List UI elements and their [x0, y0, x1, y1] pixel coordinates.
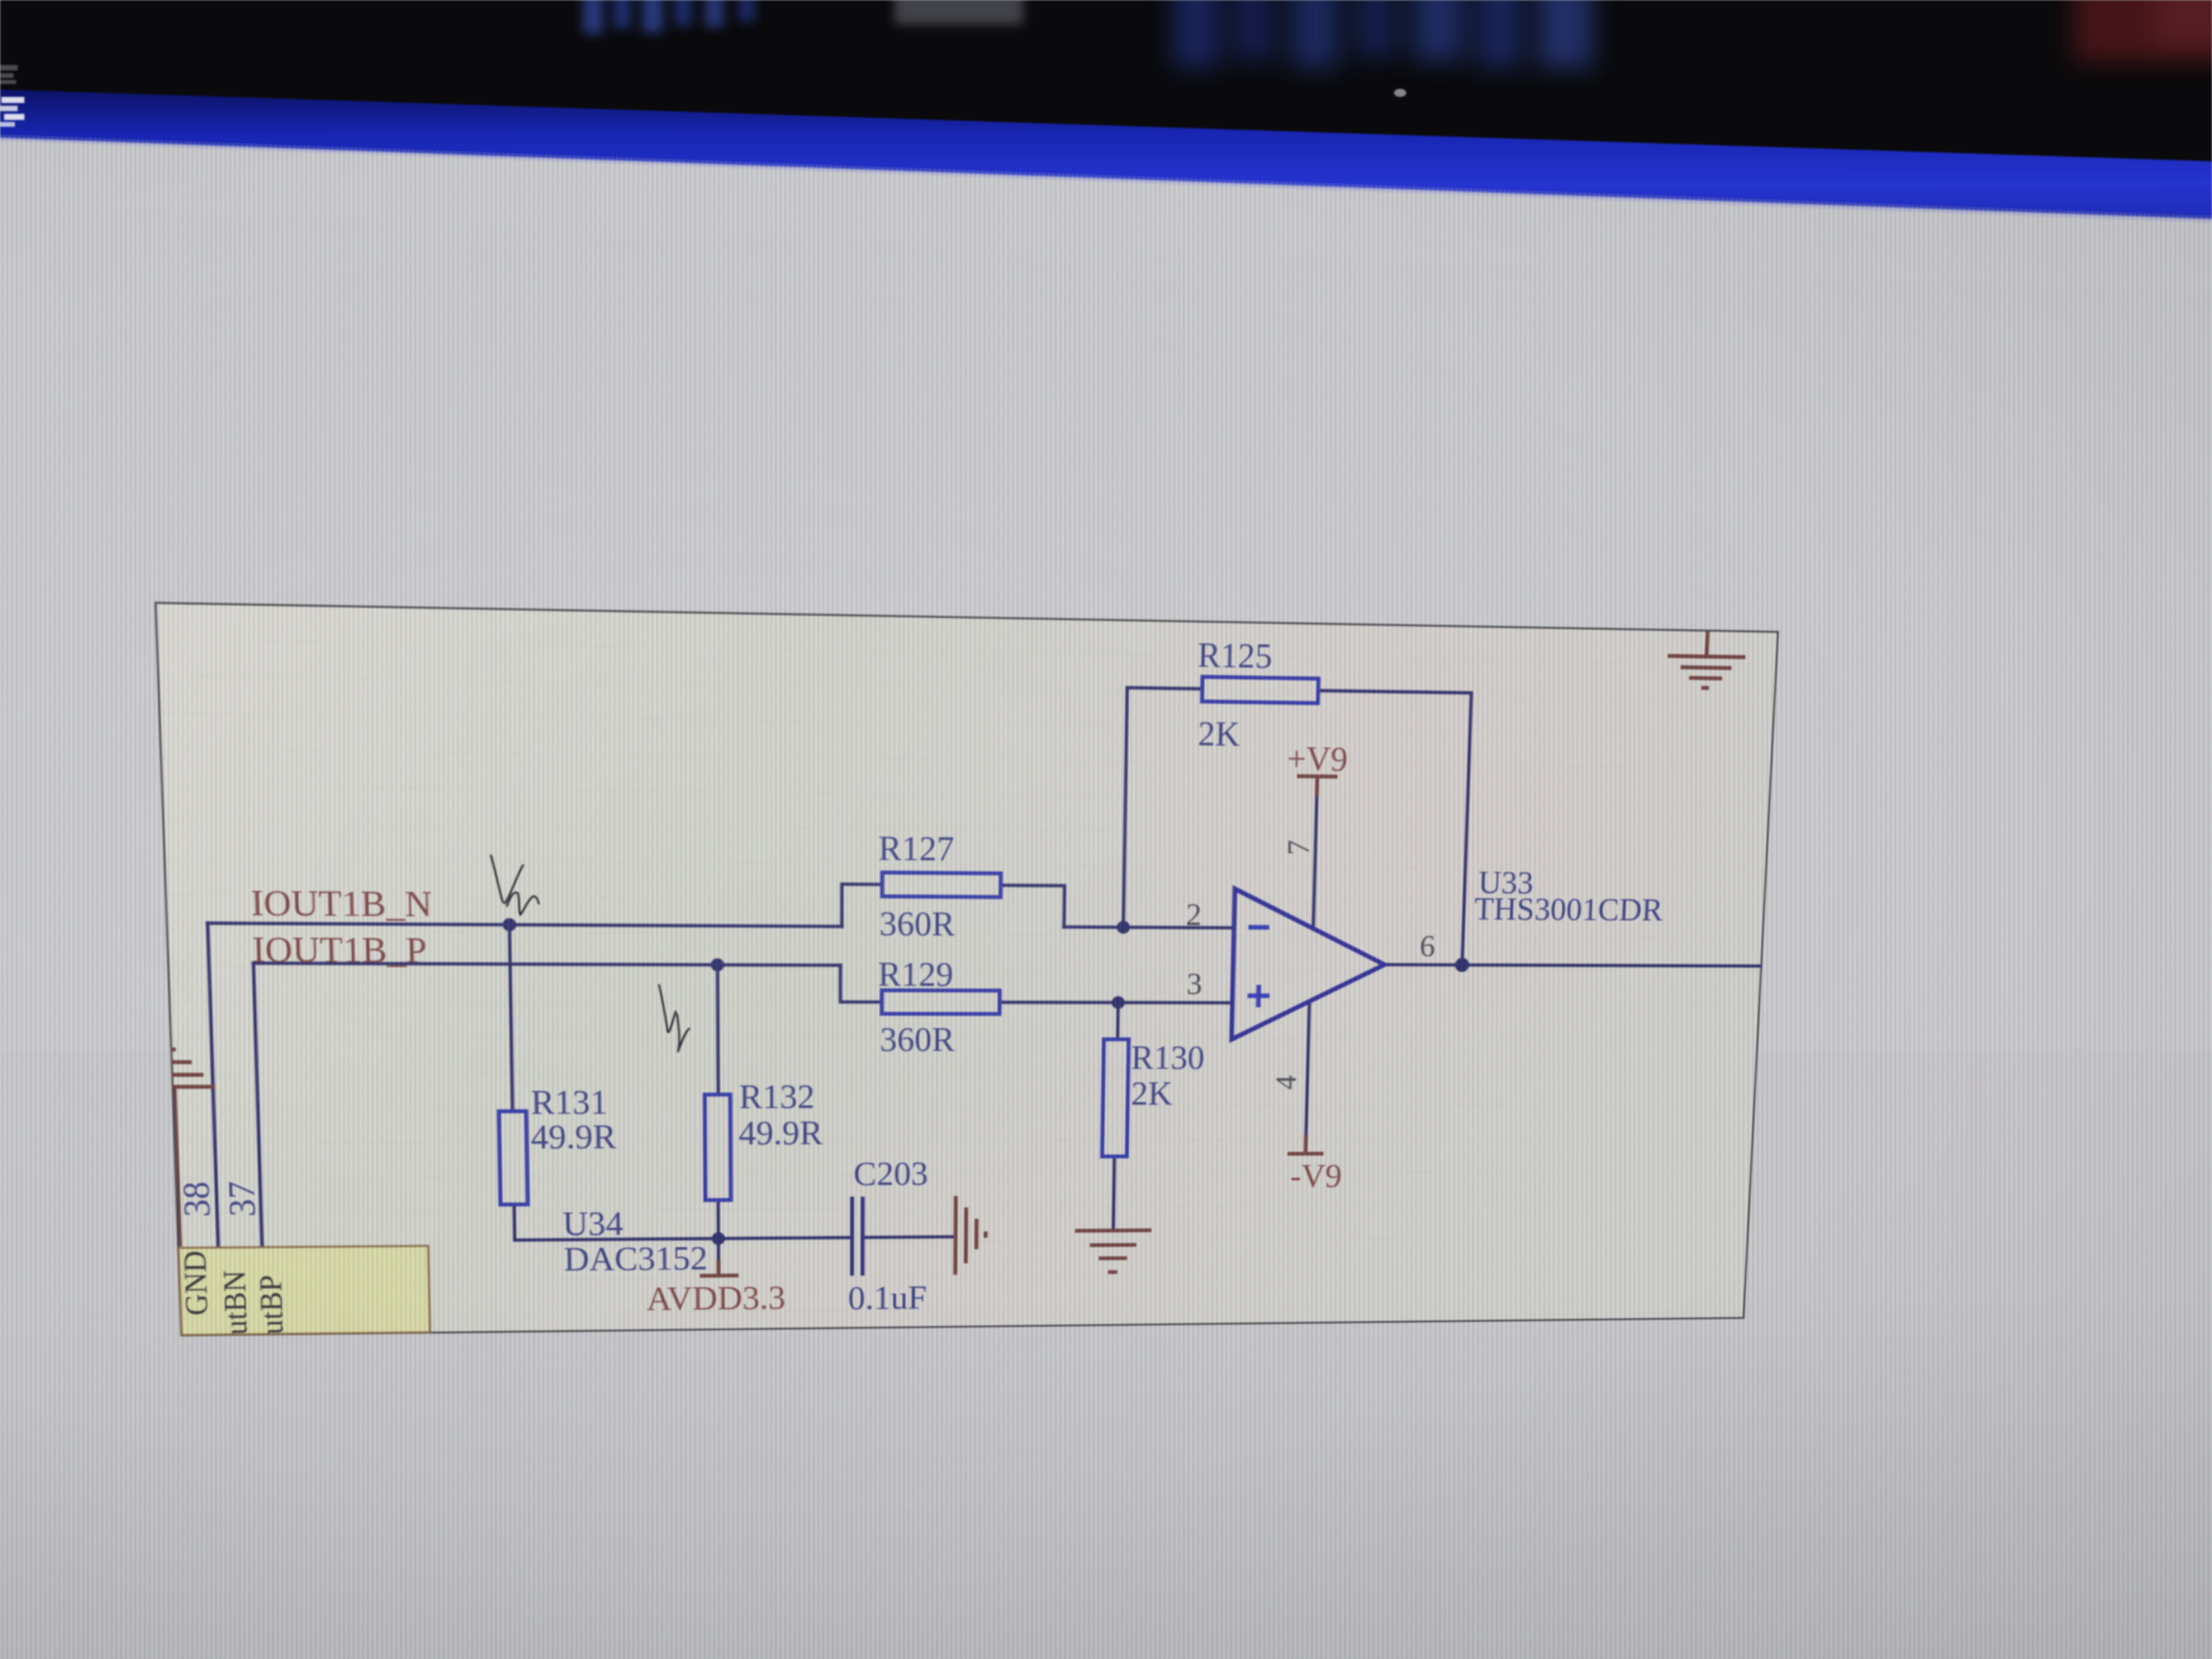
wire output pin 6 to page edge	[1385, 964, 1760, 966]
wire pin 4 to -V9	[1306, 1004, 1309, 1135]
wire R131 drop from node VN	[510, 925, 513, 1111]
schematic page background	[155, 602, 1779, 1336]
resistor R125 body	[1202, 677, 1319, 703]
svg-text:DAC3152: DAC3152	[564, 1240, 708, 1279]
power -V9 bar symbol	[1288, 1134, 1324, 1153]
blurred blue stripes right of center	[1172, 0, 2212, 68]
ground symbol top right on frame	[1666, 631, 1746, 689]
junction node pin3 dot	[1111, 996, 1125, 1009]
handwritten annotation VN	[491, 855, 523, 903]
resistor R130 body	[1102, 1040, 1128, 1157]
svg-text:2K: 2K	[1131, 1076, 1173, 1113]
junction node AVDD bus dot	[712, 1232, 725, 1245]
wire GND pin riser	[175, 1087, 180, 1247]
svg-text:4: 4	[1269, 1075, 1303, 1090]
wire R125 feedback left vertical	[1124, 688, 1202, 928]
monitor black bezel top	[0, 0, 2212, 163]
op-amp U33 triangle	[1231, 889, 1387, 1040]
ground symbol left GND pin (rotated)	[170, 1050, 215, 1087]
svg-text:OutBN: OutBN	[216, 1270, 255, 1336]
junction node VN dot	[502, 918, 516, 932]
svg-text:49.9R: 49.9R	[531, 1118, 617, 1156]
svg-text:0.1uF: 0.1uF	[848, 1279, 927, 1317]
wire C203 right lead	[865, 1235, 954, 1239]
wire pin37 stub inside U34	[262, 1247, 264, 1285]
svg-text:GND: GND	[176, 1250, 214, 1315]
wire bottom bus to C203	[718, 1237, 850, 1238]
wire R130 to ground	[1113, 1156, 1115, 1228]
svg-text:2: 2	[1185, 898, 1202, 933]
wire R127 right lead step	[1000, 885, 1065, 927]
op-amp inverting input minus mark	[1248, 925, 1269, 930]
svg-text:37: 37	[220, 1181, 264, 1217]
svg-text:R131: R131	[531, 1084, 608, 1122]
wire pin 7 from +V9	[1313, 796, 1317, 928]
junction node pin2 dot	[1117, 921, 1130, 934]
svg-text:R127: R127	[878, 829, 954, 869]
ground symbol below R130	[1074, 1230, 1151, 1272]
svg-text:U34: U34	[562, 1206, 623, 1244]
junction node output dot	[1455, 958, 1469, 972]
svg-text:2K: 2K	[1197, 715, 1240, 754]
svg-text:360R: 360R	[880, 905, 956, 944]
wire IOUT1B_P riser to pin 37	[253, 963, 262, 1247]
svg-text:-V9: -V9	[1290, 1158, 1343, 1195]
svg-text:R130: R130	[1131, 1040, 1205, 1077]
wire net IOUT1B_P horizontal	[253, 963, 840, 965]
svg-text:+V9: +V9	[1286, 740, 1348, 779]
svg-text:6: 6	[1419, 929, 1435, 964]
ground symbol right of C203 (rotated)	[956, 1196, 986, 1275]
page frame border	[156, 603, 1778, 1336]
power +V9 bar symbol	[1296, 776, 1337, 796]
capacitor C203 plates	[852, 1197, 863, 1276]
svg-text:AVDD3.3: AVDD3.3	[647, 1279, 785, 1317]
wire IOUT1B_N riser to pin 38	[207, 923, 218, 1248]
wire R125 right vertical to output	[1311, 691, 1472, 965]
component U34 body (yellow box)	[178, 1246, 430, 1335]
wire net IOUT1B_N horizontal	[207, 923, 842, 926]
svg-text:49.9R: 49.9R	[739, 1115, 823, 1153]
svg-text:R129: R129	[878, 956, 953, 994]
small white icon on bezel left edge	[0, 65, 18, 84]
op-amp non-inverting input plus mark	[1247, 985, 1269, 1007]
wire R127 left lead step	[842, 884, 882, 927]
svg-text:3: 3	[1186, 967, 1202, 1002]
svg-text:C203: C203	[853, 1155, 928, 1193]
wire R132 drop from node VP	[718, 965, 718, 1094]
soft bright reflection on screen below band	[0, 138, 2212, 291]
wire pin 2 segment	[1064, 927, 1234, 928]
wire R131 bottom lead	[514, 1203, 718, 1240]
blue task band (slanted)	[0, 89, 2212, 220]
red object top right	[2074, 0, 2212, 61]
svg-text:OutBP: OutBP	[253, 1275, 291, 1336]
svg-text:38: 38	[174, 1181, 218, 1217]
svg-text:IOUT1B_N: IOUT1B_N	[250, 882, 432, 924]
svg-text:7: 7	[1282, 840, 1317, 856]
handwritten annotation VP	[659, 985, 676, 1033]
blurred objects behind monitor: blue stripes left	[583, 0, 1023, 34]
junction node VP dot	[711, 958, 724, 972]
wire R129 left lead step	[840, 965, 882, 1002]
svg-text:R125: R125	[1197, 636, 1273, 676]
wire pin38 stub inside U34	[218, 1248, 220, 1286]
resistor R132 body	[705, 1094, 731, 1200]
power AVDD3.3 bar symbol	[700, 1260, 739, 1275]
small white icon in blue band	[0, 97, 24, 127]
wire R132 bottom lead	[716, 1200, 720, 1239]
resistor R131 body	[499, 1111, 528, 1205]
resistor R127 body	[882, 873, 1001, 897]
svg-text:IOUT1B_P: IOUT1B_P	[251, 929, 427, 970]
wire pin 3 segment	[1000, 1000, 1232, 1004]
faint speck on bezel	[1394, 89, 1406, 97]
svg-text:THS3001CDR: THS3001CDR	[1473, 890, 1664, 928]
wire R130 drop from pin3 node	[1116, 1002, 1120, 1039]
wire AVDD3.3 stub below junction	[717, 1239, 720, 1261]
svg-text:R132: R132	[739, 1078, 815, 1116]
svg-text:360R: 360R	[880, 1021, 956, 1059]
resistor R129 body	[882, 990, 1000, 1014]
